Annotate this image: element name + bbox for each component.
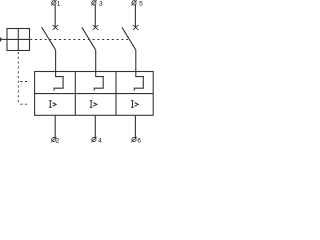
release housing middle divider <box>35 93 154 95</box>
release housing pole divider 2 <box>115 72 117 116</box>
wire blade to release box pole 1 <box>55 50 57 72</box>
trip linkage dashed stub to magnetic release row <box>20 103 28 105</box>
terminal 1 circle <box>52 1 56 5</box>
wire release box to terminal 6 <box>134 115 136 137</box>
wire terminal 3 to contact <box>94 5 96 28</box>
trip linkage dashed stub to thermal release row <box>20 81 28 83</box>
release housing pole divider 1 <box>74 72 76 116</box>
terminal 4 slash <box>91 137 96 142</box>
wire release box to terminal 4 <box>94 115 96 137</box>
terminal 3 circle <box>92 1 96 5</box>
terminal 2 slash <box>51 137 56 142</box>
magnetic overcurrent release label I> pole 1 <box>49 101 56 108</box>
breaker contact X pole 1 <box>53 25 59 30</box>
thermal overload release pole 1 <box>54 72 63 91</box>
terminal 2 circle <box>52 137 56 141</box>
operator box cross horizontal <box>7 38 30 40</box>
breaker contact X pole 2 <box>93 25 99 30</box>
magnetic overcurrent release label I> pole 2 <box>90 101 97 108</box>
mechanical linkage dashed horizontal to pole blades <box>30 39 128 41</box>
thermal overload release pole 2 <box>94 72 103 91</box>
breaker contact X pole 3 <box>133 25 139 30</box>
terminal 6 circle <box>132 137 136 141</box>
terminal 1 slash <box>51 0 56 5</box>
mechanical linkage dashed vertical from operator box <box>17 52 19 104</box>
wire blade to release box pole 2 <box>95 50 97 72</box>
wire terminal 1 to contact <box>54 5 56 28</box>
switch blade pole 3 <box>122 27 136 50</box>
wire blade to release box pole 3 <box>135 50 137 72</box>
svg-text:3: 3 <box>99 1 103 8</box>
operator stub line <box>0 38 7 40</box>
terminal 3 slash <box>91 0 96 5</box>
wire terminal 5 to contact <box>134 5 136 28</box>
svg-text:6: 6 <box>137 138 141 145</box>
magnetic overcurrent release label I> pole 3 <box>131 101 138 108</box>
svg-text:5: 5 <box>139 1 143 8</box>
svg-text:1: 1 <box>57 1 61 8</box>
operator box cross vertical <box>17 29 19 51</box>
switch blade pole 2 <box>82 27 96 50</box>
switch blade pole 1 <box>42 27 56 50</box>
operator mechanism box <box>7 29 30 51</box>
svg-text:4: 4 <box>98 138 102 145</box>
svg-text:2: 2 <box>56 138 60 145</box>
terminal 5 circle <box>132 1 136 5</box>
terminal 5 slash <box>131 0 136 5</box>
release housing box <box>35 72 154 116</box>
wire release box to terminal 2 <box>54 115 56 137</box>
thermal overload release pole 3 <box>134 72 143 91</box>
terminal 4 circle <box>92 137 96 141</box>
operator stub tick <box>0 38 2 42</box>
terminal 6 slash <box>131 137 136 142</box>
